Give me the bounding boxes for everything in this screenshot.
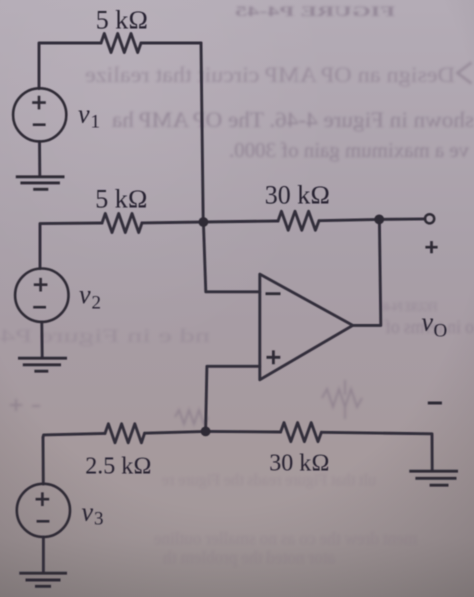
op-amp plus input symbol <box>267 350 281 364</box>
wire v3 source top stem <box>42 437 45 484</box>
resistor R1 5k zigzag top <box>101 34 141 53</box>
ground below v1 <box>16 177 65 190</box>
voltage source v3 <box>17 484 70 537</box>
node junction dot output <box>374 215 384 225</box>
svg-text:v: v <box>422 308 434 337</box>
svg-text:ator noted the problem th: ator noted the problem th <box>163 548 335 567</box>
wire vertical from R1 down to summing node <box>201 43 203 221</box>
svg-text:O: O <box>434 321 448 342</box>
wire row2 left (v2 to node) <box>40 223 102 269</box>
wire v1 source bottom stem <box>38 142 41 177</box>
wire noninverting input <box>206 366 260 431</box>
output plus polarity symbol <box>425 241 437 253</box>
wire top row v1 loop <box>39 43 101 89</box>
wire bottom row left corner to R4 <box>43 433 105 437</box>
svg-text:2: 2 <box>92 293 102 314</box>
svg-text:shown in Figure 4-46. The OP A: shown in Figure 4-46. The OP AMP ha <box>112 107 474 132</box>
output terminal open circle <box>425 214 434 223</box>
wire v2 source bottom stem <box>40 322 43 357</box>
svg-text:ment drew the co as no smaller: ment drew the co as no smaller outline <box>154 529 417 548</box>
resistor R5 30k bottom zigzag <box>281 423 322 442</box>
svg-text:30 kΩ: 30 kΩ <box>269 451 329 477</box>
node junction dot row2 <box>199 217 209 227</box>
svg-text:30 kΩ: 30 kΩ <box>265 181 330 210</box>
voltage source v1 <box>13 88 66 141</box>
svg-text:nd e in Figure P4: nd e in Figure P4 <box>0 326 210 347</box>
output minus polarity symbol <box>428 402 442 405</box>
svg-text:1: 1 <box>91 112 101 133</box>
svg-text:5 kΩ: 5 kΩ <box>96 6 148 35</box>
svg-text:5 kΩ: 5 kΩ <box>95 185 147 214</box>
wire R5 to right ground drop <box>321 432 432 470</box>
wire R3 to output node <box>319 219 379 220</box>
bleed-through ghost figure fragments <box>10 63 472 425</box>
voltage source v2 <box>15 269 68 322</box>
wire output node to terminal <box>379 217 425 220</box>
ground below v2 <box>18 358 67 371</box>
ground below v3 <box>19 573 67 586</box>
svg-text:Design an OP AMP circuit that: Design an OP AMP circuit that realize <box>85 62 455 87</box>
svg-text:v: v <box>78 100 90 129</box>
svg-text:v: v <box>82 498 94 527</box>
svg-text:2.5 kΩ: 2.5 kΩ <box>85 454 151 480</box>
wire bottom node to R5 <box>206 430 281 434</box>
svg-text:ve a maximum gain of 3000.: ve a maximum gain of 3000. <box>229 138 469 162</box>
resistor R3 30k feedback zigzag <box>278 211 319 230</box>
wire top right <box>141 42 201 45</box>
ground bottom right <box>409 471 458 485</box>
resistor R2 5k zigzag row2 <box>102 214 142 233</box>
resistor R4 2.5k zigzag <box>105 424 145 443</box>
svg-text:FIGURE P4-45: FIGURE P4-45 <box>235 4 395 20</box>
wire output from apex up to node <box>353 221 381 325</box>
svg-text:3: 3 <box>94 509 104 530</box>
wire v3 source bottom stem <box>42 537 45 572</box>
wire inverting input from node down into op-amp <box>203 222 259 292</box>
svg-text:v: v <box>79 280 91 309</box>
wire R4 to bottom node <box>145 431 206 433</box>
node junction dot bottom <box>201 427 211 437</box>
op-amp minus input symbol <box>266 292 281 295</box>
wire R2 to node <box>142 221 203 225</box>
op-amp U1 triangle <box>260 274 353 380</box>
wire node to feedback resistor <box>203 221 278 222</box>
